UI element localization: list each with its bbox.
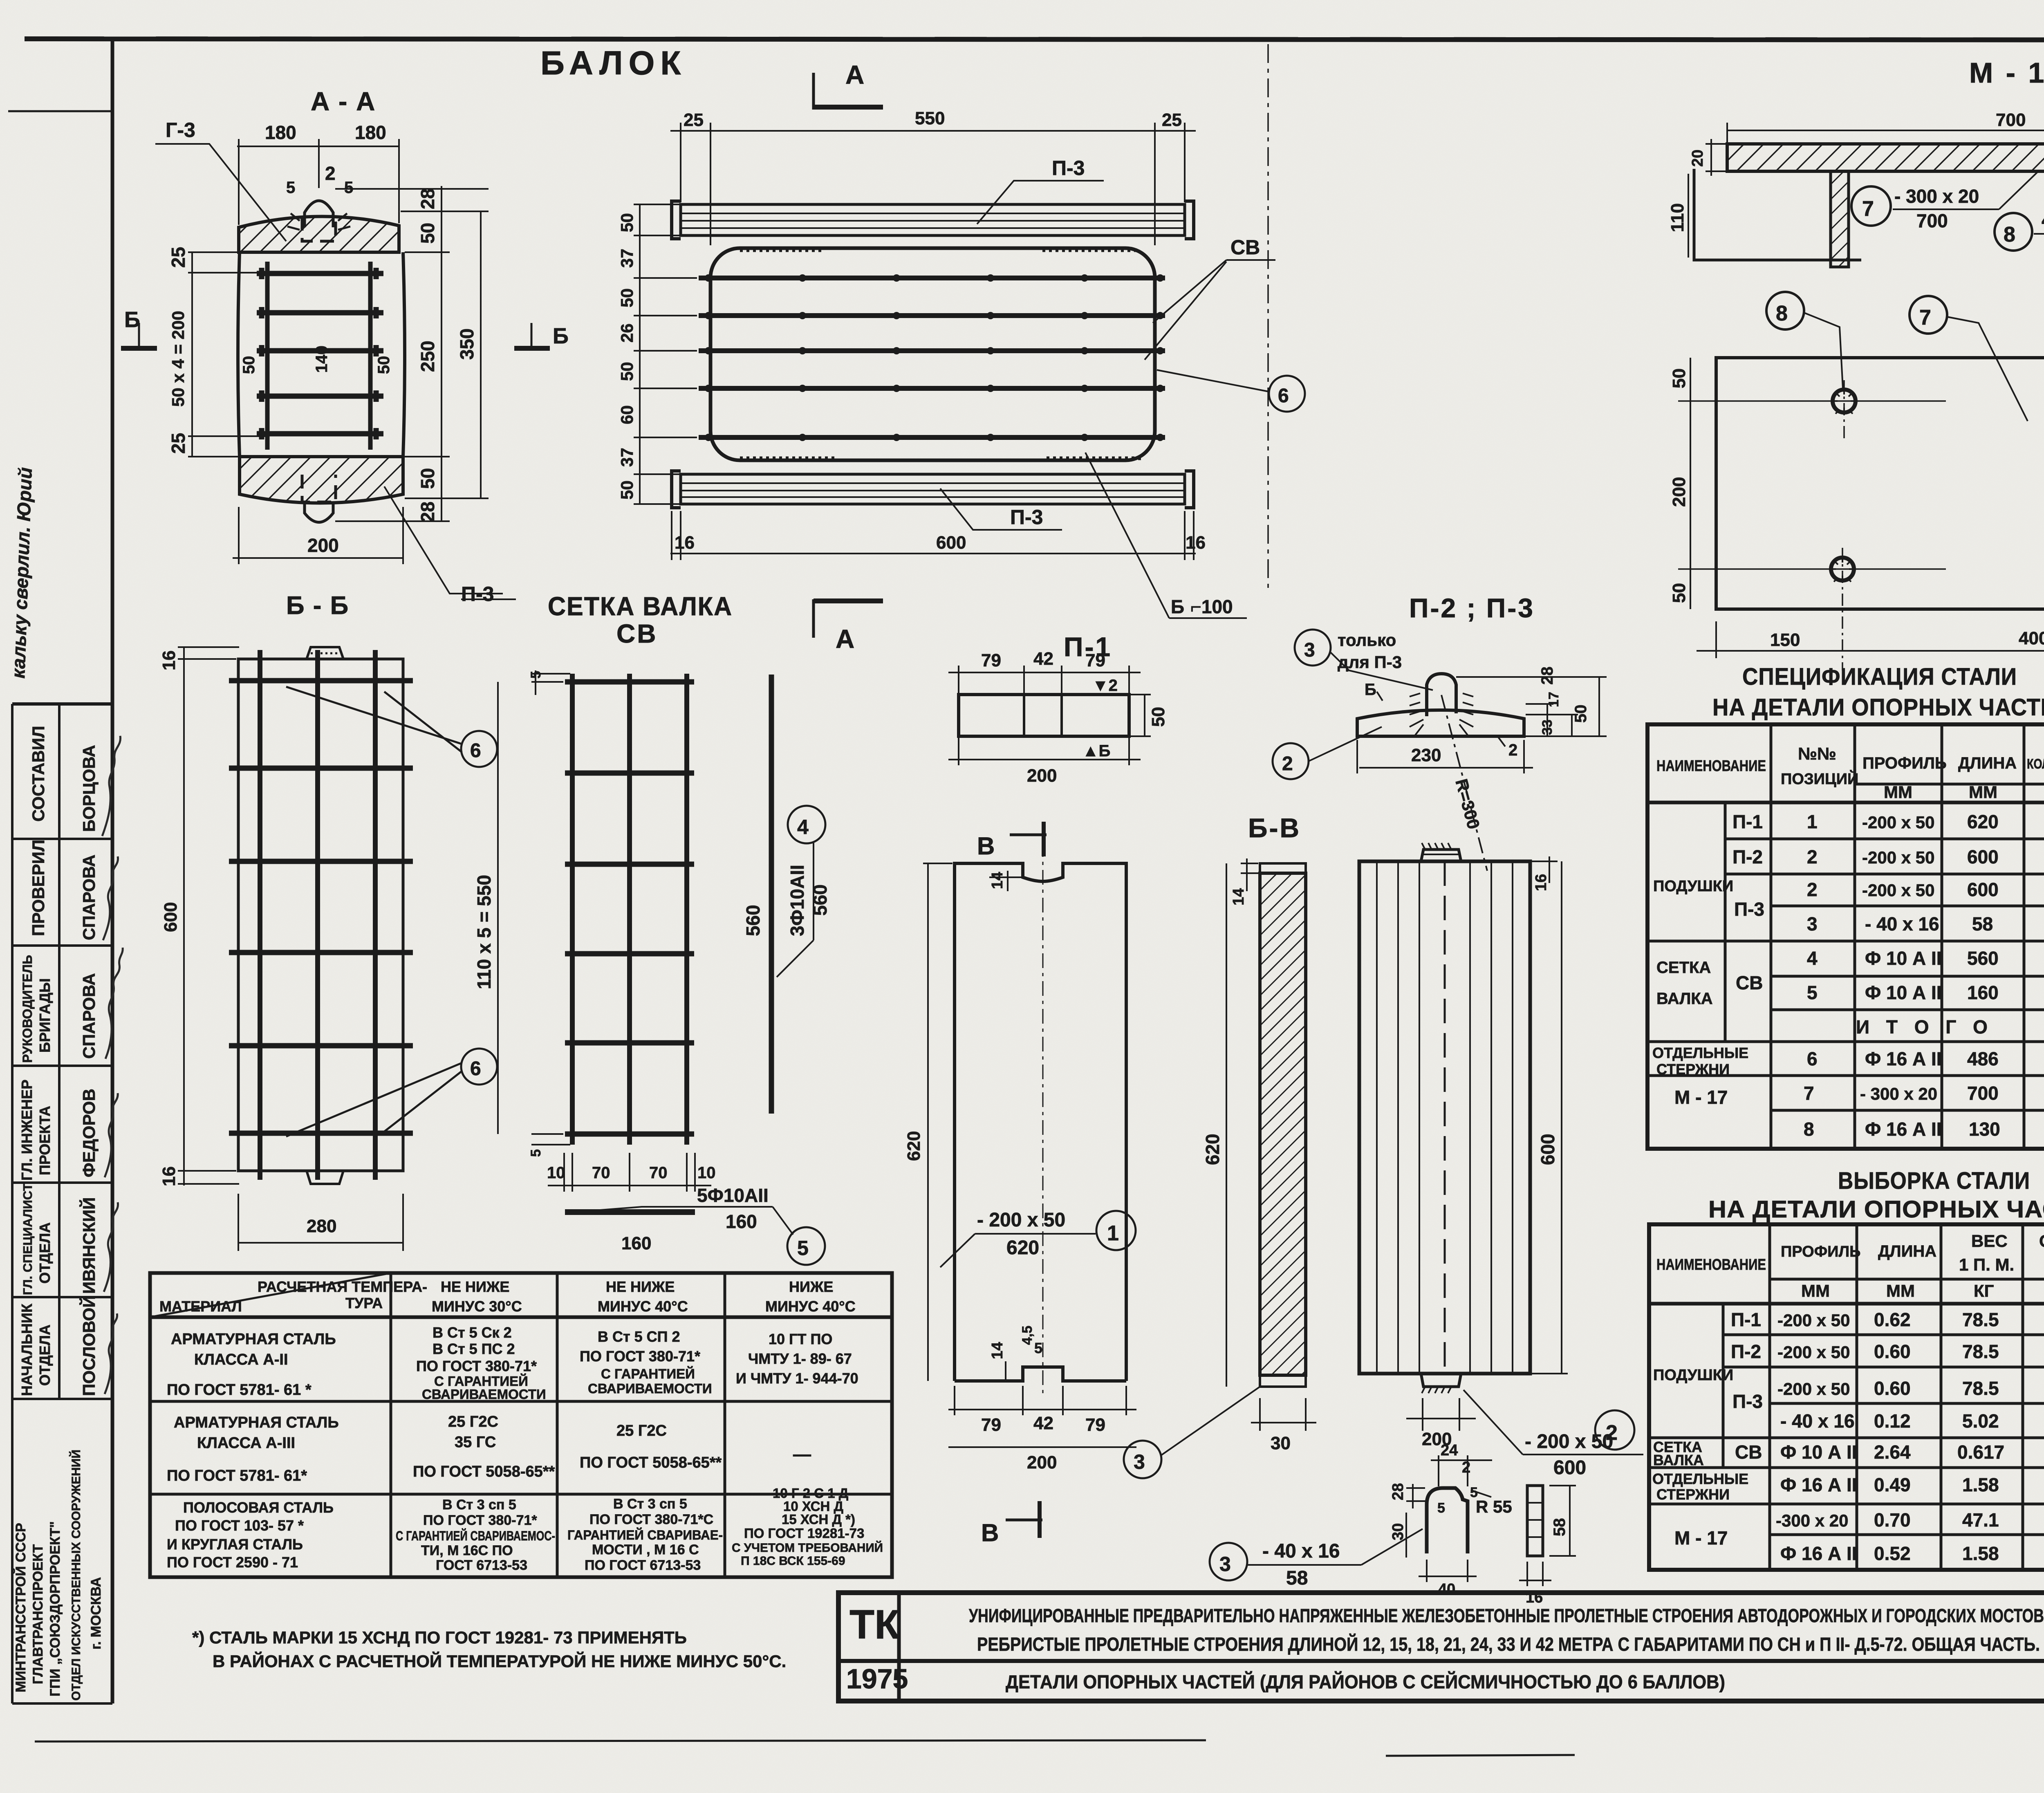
plan rebar line 3 <box>699 348 1165 353</box>
svg-text:только: только <box>1338 630 1396 650</box>
mesh Б-Б dims <box>178 647 403 1251</box>
svg-text:*) СТАЛЬ МАРКИ 15 ХСНД П: *) СТАЛЬ МАРКИ 15 ХСНД ПО ГОСТ 19281- 73… <box>192 1628 687 1647</box>
label circled 7 with -300x20 700 <box>1851 172 2038 231</box>
svg-text:16: 16 <box>159 1166 179 1186</box>
svg-text:ПРОВЕРИЛ: ПРОВЕРИЛ <box>29 840 48 936</box>
svg-text:560: 560 <box>809 884 831 916</box>
svg-text:50 х 4 = 200: 50 х 4 = 200 <box>168 311 188 407</box>
М-17 beam edge outline <box>1694 169 1861 260</box>
svg-text:НЕ НИЖЕ: НЕ НИЖЕ <box>441 1278 509 1295</box>
svg-text:-200 х 50: -200 х 50 <box>1777 1343 1850 1362</box>
svg-text:СВ: СВ <box>1735 1441 1762 1463</box>
svg-text:СТЕРЖНИ: СТЕРЖНИ <box>1656 1061 1730 1078</box>
П-3 bar detail dims <box>1406 1455 1492 1582</box>
svg-text:Ф 10 А II: Ф 10 А II <box>1865 982 1942 1003</box>
mesh СВ vertical bars <box>565 674 694 1145</box>
svg-text:ГОСТ 6713-53: ГОСТ 6713-53 <box>436 1558 527 1573</box>
svg-text:600: 600 <box>1967 846 1999 867</box>
svg-text:В Ст 3 сп 5: В Ст 3 сп 5 <box>442 1497 516 1513</box>
mesh Б-Б vertical bars <box>258 650 262 1180</box>
svg-text:Б - Б: Б - Б <box>286 592 349 620</box>
svg-text:3: 3 <box>1304 639 1315 661</box>
svg-text:28: 28 <box>417 502 438 522</box>
svg-text:ОТДЕЛЬНЫЕ: ОТДЕЛЬНЫЕ <box>1652 1470 1748 1487</box>
М-17 section dims <box>1688 123 2044 273</box>
svg-text:5.02: 5.02 <box>1962 1410 1999 1432</box>
svg-text:СПАРОВА: СПАРОВА <box>79 973 99 1059</box>
svg-text:78.5: 78.5 <box>1962 1309 1999 1330</box>
svg-text:14: 14 <box>989 1342 1006 1359</box>
mesh СВ horizontal bars <box>565 679 694 685</box>
materials footnote <box>192 1628 786 1671</box>
svg-text:КГ: КГ <box>1974 1281 1994 1300</box>
svg-text:6: 6 <box>470 1058 481 1080</box>
Б-В left hatched plate bar <box>1260 863 1306 1387</box>
svg-text:ПОДУШКИ: ПОДУШКИ <box>1653 878 1733 895</box>
svg-text:П-3: П-3 <box>1052 157 1085 179</box>
svg-text:ММ: ММ <box>1884 782 1912 802</box>
svg-text:—: — <box>793 1444 811 1464</box>
svg-text:ПОЗИЦИЙ: ПОЗИЦИЙ <box>1781 769 1858 788</box>
svg-text:ОТДЕЛ ИСКУССТВЕННЫХ СООРУЖЕНИЙ: ОТДЕЛ ИСКУССТВЕННЫХ СООРУЖЕНИЙ <box>69 1450 83 1701</box>
svg-text:- 200 х 50: - 200 х 50 <box>977 1209 1065 1231</box>
svg-text:П-1: П-1 <box>1731 1309 1761 1330</box>
svg-text:8: 8 <box>1804 1118 1814 1140</box>
svg-text:ММ: ММ <box>1801 1281 1830 1300</box>
label П-3 bottom with leader <box>384 486 516 605</box>
svg-text:НИЖЕ: НИЖЕ <box>789 1278 833 1295</box>
svg-text:140: 140 <box>313 345 331 373</box>
svg-text:ОТДЕЛЬНЫЕ: ОТДЕЛЬНЫЕ <box>1652 1044 1748 1061</box>
svg-text:2: 2 <box>1807 846 1818 867</box>
svg-text:10 ГТ ПО: 10 ГТ ПО <box>769 1331 832 1347</box>
svg-text:486: 486 <box>1967 1048 1999 1069</box>
plan view pad with mesh <box>699 248 1165 460</box>
svg-text:400: 400 <box>2019 628 2044 648</box>
svg-text:ОТДЕЛА: ОТДЕЛА <box>36 1325 53 1386</box>
svg-text:4: 4 <box>797 816 809 838</box>
П-1 front view dims <box>923 863 1136 1447</box>
М-17 plan view plate <box>1716 358 2044 609</box>
svg-text:Ф 10 А II: Ф 10 А II <box>1865 948 1942 969</box>
svg-text:200: 200 <box>307 535 339 556</box>
svg-text:ВЕС: ВЕС <box>1971 1231 2008 1251</box>
bottom short line <box>1386 1755 1575 1756</box>
П-1 front view В <box>955 863 1126 1381</box>
stamp signatures (handwritten squiggles) <box>102 736 123 1394</box>
svg-text:ПРОФИЛЬ: ПРОФИЛЬ <box>1862 754 1947 772</box>
A-A web outline <box>238 252 240 457</box>
svg-text:РЕБРИСТЫЕ ПРОЛЕТНЫЕ СТРОЕНИЯ: РЕБРИСТЫЕ ПРОЛЕТНЫЕ СТРОЕНИЯ ДЛИНОЙ 12, … <box>977 1634 2040 1655</box>
A-A top flange hatched <box>239 216 399 252</box>
svg-text:28: 28 <box>417 188 438 209</box>
svg-text:5: 5 <box>797 1237 809 1260</box>
svg-text:620: 620 <box>1202 1134 1223 1165</box>
svg-text:16: 16 <box>159 650 179 670</box>
border left frame <box>111 39 114 1703</box>
label Б 100 with long leader <box>1085 453 1247 618</box>
П-3 bar side view small <box>1519 1486 1576 1586</box>
П-2/П-3 labels <box>1273 630 1517 779</box>
svg-text:РУКОВОДИТЕЛЬ: РУКОВОДИТЕЛЬ <box>20 955 35 1063</box>
svg-text:4: 4 <box>1807 948 1818 969</box>
svg-text:И Т О Г О: И Т О Г О <box>1856 1016 1993 1038</box>
svg-text:50: 50 <box>617 480 637 500</box>
svg-text:ТУРА: ТУРА <box>345 1295 383 1311</box>
svg-text:ГЛАВТРАНСПРОЕКТ: ГЛАВТРАНСПРОЕКТ <box>30 1544 46 1684</box>
sheet fold mark centerline <box>1267 44 1269 593</box>
svg-text:МИНУС 40°С: МИНУС 40°С <box>765 1298 856 1315</box>
svg-text:17: 17 <box>1546 692 1562 707</box>
svg-text:4 Ф 16 А II: 4 Ф 16 А II <box>2042 209 2044 231</box>
svg-text:3: 3 <box>1134 1450 1145 1473</box>
svg-text:ГЛ. СПЕЦИАЛИСТ: ГЛ. СПЕЦИАЛИСТ <box>20 1183 35 1295</box>
label Г-3 with leader <box>155 119 286 241</box>
svg-text:КЛАССА А-II: КЛАССА А-II <box>194 1351 288 1368</box>
materials table grid <box>150 1273 892 1577</box>
svg-text:600: 600 <box>161 902 181 932</box>
svg-text:П-1: П-1 <box>1732 811 1763 832</box>
svg-text:ВАЛКА: ВАЛКА <box>1656 990 1713 1008</box>
svg-text:30: 30 <box>1271 1433 1291 1453</box>
svg-text:50: 50 <box>417 223 438 244</box>
svg-text:СОСТАВИЛ: СОСТАВИЛ <box>29 726 48 822</box>
label 5Ф10АII 160 circled 5 <box>585 1185 825 1265</box>
svg-text:НАИМЕНОВАНИЕ: НАИМЕНОВАНИЕ <box>1656 1256 1766 1273</box>
svg-text:А - А: А - А <box>311 87 376 116</box>
svg-text:НАЧАЛЬНИК: НАЧАЛЬНИК <box>18 1303 35 1396</box>
svg-text:Б-В: Б-В <box>1248 813 1301 843</box>
svg-text:СВАРИВАЕМОСТИ: СВАРИВАЕМОСТИ <box>588 1381 712 1396</box>
svg-text:50: 50 <box>417 468 438 489</box>
Б-В right bar dims <box>1406 856 1568 1431</box>
A-A bottom flange hatched <box>240 457 403 503</box>
A-A dimensions <box>188 139 489 564</box>
label circled 3 bottom <box>1124 1386 1261 1478</box>
svg-text:150: 150 <box>1770 630 1800 650</box>
svg-text:2: 2 <box>325 163 336 184</box>
svg-text:ПО ГОСТ 380-71*: ПО ГОСТ 380-71* <box>423 1513 537 1528</box>
svg-text:26: 26 <box>617 323 637 343</box>
svg-text:1 П. М.: 1 П. М. <box>1959 1255 2014 1274</box>
svg-text:Б: Б <box>124 307 140 332</box>
svg-text:250: 250 <box>417 341 438 372</box>
svg-text:2: 2 <box>1807 879 1818 900</box>
rebar position 4 single bar <box>769 675 774 1114</box>
svg-text:160: 160 <box>621 1233 651 1253</box>
svg-text:ГПИ „СОЮЗДОРПРОЕКТ": ГПИ „СОЮЗДОРПРОЕКТ" <box>47 1521 63 1697</box>
svg-text:2.64: 2.64 <box>1874 1441 1911 1463</box>
svg-text:ТИ, М 16С ПО: ТИ, М 16С ПО <box>421 1543 513 1558</box>
svg-text:79: 79 <box>1085 1415 1105 1435</box>
svg-text:5: 5 <box>528 1149 544 1157</box>
svg-text:560: 560 <box>742 905 764 936</box>
svg-text:- 40 х 16: - 40 х 16 <box>1780 1410 1855 1432</box>
svg-text:110: 110 <box>1667 203 1688 232</box>
svg-text:600: 600 <box>1537 1134 1558 1165</box>
label circled 6 plan <box>1157 370 1305 412</box>
svg-text:70: 70 <box>649 1164 668 1182</box>
svg-text:МАТЕРИАЛ: МАТЕРИАЛ <box>159 1298 242 1315</box>
svg-text:58: 58 <box>1286 1567 1308 1589</box>
svg-text:-200 х 50: -200 х 50 <box>1777 1379 1850 1399</box>
svg-text:180: 180 <box>265 122 296 143</box>
СПЕЦИФИКАЦИЯ data rows <box>1652 811 2044 1140</box>
plan weld dotted rows <box>740 249 822 252</box>
svg-text:ПО ГОСТ 380-71*: ПО ГОСТ 380-71* <box>580 1348 700 1365</box>
svg-text:24: 24 <box>1441 1442 1458 1459</box>
view A-A beam section <box>238 201 405 522</box>
svg-text:ПО ГОСТ 2590 - 71: ПО ГОСТ 2590 - 71 <box>167 1554 298 1571</box>
svg-text:МИНУС 30°С: МИНУС 30°С <box>432 1298 522 1315</box>
svg-text:130: 130 <box>1969 1118 2000 1140</box>
svg-text:15 ХСН Д *): 15 ХСН Д *) <box>782 1512 855 1527</box>
svg-text:0.49: 0.49 <box>1874 1474 1911 1495</box>
svg-text:3: 3 <box>1219 1553 1231 1576</box>
section marker Б right <box>514 323 569 348</box>
svg-text:Ф 16 А II: Ф 16 А II <box>1865 1048 1942 1069</box>
П-2/П-3 curved plate section <box>1357 674 1524 736</box>
svg-text:ММ: ММ <box>1886 1281 1915 1300</box>
svg-text:2: 2 <box>1508 741 1517 759</box>
svg-text:В Ст 5 Ск 2: В Ст 5 Ск 2 <box>433 1324 512 1341</box>
svg-text:0.60: 0.60 <box>1874 1341 1911 1362</box>
svg-text:0.62: 0.62 <box>1874 1309 1911 1330</box>
svg-text:БОРЦОВА: БОРЦОВА <box>79 745 99 832</box>
svg-text:200: 200 <box>1027 1452 1057 1473</box>
svg-text:25: 25 <box>168 247 189 268</box>
svg-text:А: А <box>845 60 864 90</box>
svg-text:Б: Б <box>1365 681 1376 699</box>
label circled 3 with -40x16 58 <box>1210 1529 1423 1589</box>
svg-text:1: 1 <box>1107 1221 1119 1245</box>
svg-text:Ф 16 А II: Ф 16 А II <box>1780 1543 1857 1564</box>
svg-text:П-2: П-2 <box>1731 1341 1761 1362</box>
svg-text:2: 2 <box>1282 753 1293 775</box>
svg-text:3Ф10АII: 3Ф10АII <box>787 865 808 936</box>
svg-text:Ф 16 А II: Ф 16 А II <box>1780 1474 1857 1495</box>
svg-text:58: 58 <box>1551 1518 1569 1537</box>
svg-text:35 ГС: 35 ГС <box>455 1434 496 1451</box>
svg-text:П-3: П-3 <box>1734 899 1764 920</box>
svg-text:МИНТРАНССТРОЙ СССР: МИНТРАНССТРОЙ СССР <box>13 1523 29 1692</box>
label circled 7 plan <box>1910 296 2028 421</box>
svg-text:600: 600 <box>1553 1457 1586 1479</box>
svg-text:-200 х 50: -200 х 50 <box>1777 1311 1850 1330</box>
svg-text:Ф 16 А II: Ф 16 А II <box>1865 1118 1942 1140</box>
svg-text:50: 50 <box>240 356 258 374</box>
svg-text:НА ДЕТАЛИ ОПОРНЫХ ЧАСТЕЙ: НА ДЕТАЛИ ОПОРНЫХ ЧАСТЕЙ <box>1708 1196 2044 1223</box>
svg-text:ПО ГОСТ 5058-65**: ПО ГОСТ 5058-65** <box>580 1454 722 1471</box>
svg-text:1: 1 <box>1807 811 1818 832</box>
svg-text:-300 х 20: -300 х 20 <box>1776 1511 1848 1530</box>
svg-text:В Ст 5 ПС 2: В Ст 5 ПС 2 <box>433 1340 515 1357</box>
svg-text:В: В <box>981 1519 999 1546</box>
svg-text:14: 14 <box>989 872 1006 889</box>
svg-text:1.58: 1.58 <box>1962 1474 1999 1495</box>
A-A rebar row 3 <box>257 345 383 356</box>
A-A embedded plate dashed <box>302 217 336 241</box>
stamp org block rotated text <box>13 1450 104 1701</box>
П-1 top view dims <box>948 666 1151 765</box>
ВЫБОРКА table grid <box>1649 1224 2044 1570</box>
svg-text:ТК: ТК <box>849 1602 900 1647</box>
svg-text:110 х 5 = 550: 110 х 5 = 550 <box>473 875 495 989</box>
svg-text:С УЧЕТОМ ТРЕБОВАНИЙ: С УЧЕТОМ ТРЕБОВАНИЙ <box>732 1541 883 1555</box>
svg-text:Ф 10 А II: Ф 10 А II <box>1780 1441 1857 1463</box>
М-17 anchor plate section <box>1694 144 2044 271</box>
border top <box>25 39 2044 40</box>
svg-text:ПОЛОСОВАЯ СТАЛЬ: ПОЛОСОВАЯ СТАЛЬ <box>183 1499 334 1516</box>
ВЫБОРКА header text <box>1656 1231 2044 1300</box>
plan rebar cross dots <box>705 274 1164 441</box>
label circled 8 with 4Ф16АII 150 <box>1995 204 2044 255</box>
mesh Б-Б circled 6 labels <box>286 687 497 1136</box>
svg-text:СВ: СВ <box>1736 972 1763 993</box>
plan rebar line 1 <box>699 276 1165 280</box>
svg-text:350: 350 <box>456 328 477 360</box>
П-3 bar small section detail <box>1427 1488 1468 1553</box>
section marker А top <box>814 60 883 110</box>
plan rebar line 4 <box>699 386 1165 391</box>
svg-text:-200 х 50: -200 х 50 <box>1862 848 1934 867</box>
svg-text:-200 х 50: -200 х 50 <box>1862 813 1934 832</box>
svg-text:50: 50 <box>1669 583 1689 603</box>
svg-text:БРИГАДЫ: БРИГАДЫ <box>36 978 53 1053</box>
materials table header <box>159 1278 856 1315</box>
svg-text:37: 37 <box>617 448 637 467</box>
materials row 3 <box>167 1486 883 1573</box>
ВЫБОРКА data rows <box>1652 1309 2044 1564</box>
svg-text:ВЫБОРКА СТАЛИ: ВЫБОРКА СТАЛИ <box>1838 1168 2030 1194</box>
svg-text:И КРУГЛАЯ СТАЛЬ: И КРУГЛАЯ СТАЛЬ <box>167 1536 303 1553</box>
plan rebar line 2 <box>699 313 1165 318</box>
svg-text:ПОДУШКИ: ПОДУШКИ <box>1653 1367 1733 1384</box>
svg-text:⌐100: ⌐100 <box>1190 596 1233 617</box>
svg-text:ПО ГОСТ 380-71*: ПО ГОСТ 380-71* <box>416 1358 537 1374</box>
plan rebar line 5 <box>699 435 1165 440</box>
svg-text:ИВЯНСКИЙ: ИВЯНСКИЙ <box>79 1197 99 1294</box>
svg-text:560: 560 <box>1967 948 1999 969</box>
svg-text:16: 16 <box>1533 874 1550 891</box>
svg-text:П-3: П-3 <box>1010 506 1043 529</box>
svg-text:ВАЛКА: ВАЛКА <box>1653 1452 1704 1468</box>
svg-text:В Ст 3 сп 5: В Ст 3 сп 5 <box>613 1496 687 1512</box>
svg-text:ГАРАНТИЕЙ СВАРИВАЕ-: ГАРАНТИЕЙ СВАРИВАЕ- <box>567 1528 723 1542</box>
svg-text:М - 17: М - 17 <box>1969 57 2044 89</box>
svg-text:14: 14 <box>1230 888 1247 905</box>
svg-text:2: 2 <box>1606 1421 1618 1445</box>
svg-text:40: 40 <box>1438 1581 1455 1598</box>
svg-text:ПО ГОСТ 6713-53: ПО ГОСТ 6713-53 <box>585 1558 701 1573</box>
svg-text:20: 20 <box>1689 150 1706 167</box>
svg-text:200: 200 <box>1027 766 1057 786</box>
svg-text:10: 10 <box>547 1164 565 1182</box>
svg-text:600: 600 <box>936 533 966 553</box>
svg-text:50: 50 <box>617 362 637 381</box>
svg-text:ПО ГОСТ 380-71*С: ПО ГОСТ 380-71*С <box>589 1512 713 1527</box>
svg-text:Г-3: Г-3 <box>166 119 195 141</box>
svg-text:50: 50 <box>1669 368 1689 388</box>
sidebar top margin line <box>8 110 112 112</box>
materials row 1 <box>167 1324 858 1402</box>
materials row 2 <box>167 1413 811 1484</box>
svg-text:ДЕТАЛИ ОПОРНЫХ ЧАСТЕЙ (ДЛЯ: ДЕТАЛИ ОПОРНЫХ ЧАСТЕЙ (ДЛЯ РАЙОНОВ С СЕЙ… <box>1006 1671 1725 1692</box>
svg-text:25: 25 <box>168 433 189 454</box>
label П-3 top with leader <box>977 157 1104 224</box>
svg-text:50: 50 <box>375 356 393 374</box>
marker В bottom <box>981 1501 1042 1546</box>
svg-text:Б: Б <box>553 324 569 348</box>
svg-text:М - 17: М - 17 <box>1674 1087 1728 1108</box>
svg-text:79: 79 <box>1085 650 1105 670</box>
svg-text:50: 50 <box>1572 705 1590 723</box>
label П-3 bottom-left with leader <box>940 489 1062 530</box>
sidebar handwriting <box>7 467 36 679</box>
svg-text:С ГАРАНТИЕЙ: С ГАРАНТИЕЙ <box>601 1366 695 1381</box>
svg-text:230: 230 <box>1411 745 1441 765</box>
svg-text:28: 28 <box>1538 667 1556 685</box>
svg-text:▲Б: ▲Б <box>1083 742 1110 760</box>
svg-text:79: 79 <box>981 650 1001 670</box>
label СВ with leaders <box>1145 236 1275 360</box>
svg-text:- 300 х 20: - 300 х 20 <box>1894 186 1979 207</box>
svg-text:620: 620 <box>1967 811 1999 832</box>
svg-text:8: 8 <box>2004 223 2015 247</box>
Б-В top anchor tab <box>1421 849 1461 861</box>
Б-В right laminated bearing bar <box>1359 843 1530 1393</box>
П-1 top view <box>959 695 1129 736</box>
svg-text:16: 16 <box>1186 533 1206 553</box>
mesh Б-Б outer pad <box>229 647 413 1184</box>
svg-text:МОСТИ , М 16 С: МОСТИ , М 16 С <box>592 1542 699 1558</box>
stamp table left sidebar <box>12 704 112 1703</box>
svg-text:2: 2 <box>1462 1459 1470 1476</box>
mesh Б-Б horizontal bars <box>229 678 413 684</box>
М-17 plan anchor rosettes <box>1831 390 2044 580</box>
svg-text:▼2: ▼2 <box>1092 677 1118 695</box>
svg-text:60: 60 <box>617 405 637 424</box>
svg-text:16: 16 <box>675 533 695 553</box>
svg-text:25 Г2С: 25 Г2С <box>448 1413 498 1430</box>
svg-text:БАЛОК: БАЛОК <box>540 45 686 82</box>
svg-text:ФЕДОРОВ: ФЕДОРОВ <box>79 1089 99 1177</box>
svg-text:РАСЧЕТНАЯ ТЕМПЕРА-: РАСЧЕТНАЯ ТЕМПЕРА- <box>258 1278 427 1295</box>
svg-text:ПО ГОСТ 5058-65**: ПО ГОСТ 5058-65** <box>413 1463 555 1480</box>
СПЕЦИФИКАЦИЯ header text <box>1656 743 2044 802</box>
title block frame <box>838 1593 2044 1701</box>
title block main text row 1 <box>969 1605 2044 1655</box>
svg-text:0.617: 0.617 <box>1957 1441 2004 1463</box>
svg-text:700: 700 <box>1996 110 2026 130</box>
svg-text:600: 600 <box>1967 879 1999 900</box>
svg-text:620: 620 <box>1006 1237 1039 1259</box>
П-2/П-3 rebar loop on top <box>1427 674 1456 716</box>
svg-text:Б: Б <box>1171 596 1184 617</box>
svg-text:ПРОЕКТА: ПРОЕКТА <box>36 1106 53 1175</box>
plan view left dim stack <box>634 204 697 504</box>
svg-text:5: 5 <box>1437 1500 1445 1516</box>
П-2/П-3 dims <box>1357 677 1607 773</box>
rebar position 5 single bar <box>565 1209 695 1215</box>
svg-text:5: 5 <box>528 671 544 679</box>
svg-text:58: 58 <box>1972 913 1993 935</box>
svg-text:180: 180 <box>355 122 386 143</box>
svg-text:УНИФИЦИРОВАННЫЕ ПРЕДВАРИТЕЛЬН: УНИФИЦИРОВАННЫЕ ПРЕДВАРИТЕЛЬНО НАПРЯЖЕНН… <box>969 1605 2044 1626</box>
svg-text:50: 50 <box>1148 707 1168 727</box>
svg-text:КОЛИЧЕСТВО: КОЛИЧЕСТВО <box>2027 756 2044 772</box>
svg-text:ДЛИНА: ДЛИНА <box>1878 1242 1936 1260</box>
